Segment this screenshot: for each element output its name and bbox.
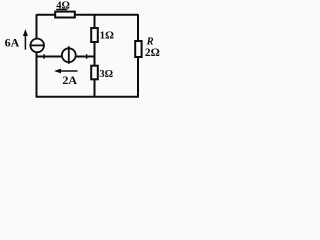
wire: left branch lower segment (current source bottom to node D): [36, 52, 38, 98]
svg-text:2A: 2A: [62, 73, 77, 87]
svg-text:1Ω: 1Ω: [100, 30, 115, 42]
svg-text:3Ω: 3Ω: [99, 69, 113, 80]
resistor 1-ohm (vertical box on middle branch): [91, 28, 98, 42]
resistor R 2-ohm (vertical box on right branch): [135, 41, 141, 57]
wire: middle branch segment (3-ohm resistor bottom to bottom net): [94, 79, 96, 98]
resistor 4-ohm (horizontal box on top net): [55, 12, 75, 18]
current source I1 6A (circle with horizontal bar, on left branch): [30, 39, 44, 53]
junction tick on middle net (left of 2A source): [43, 54, 45, 59]
resistor 3-ohm (vertical box on middle branch): [91, 66, 98, 80]
wire: middle horizontal net (left branch node to 2A source left terminal): [36, 56, 62, 58]
wire: bottom net from node D (bottom-left) to node C (bottom-right): [36, 96, 139, 98]
junction tick on middle net (right of 2A source, node E side): [86, 54, 88, 59]
arrow: 6A current direction (up), left of source: [24, 33, 26, 50]
wire: middle branch segment (top net to 1-ohm resistor, through to node E): [94, 14, 96, 66]
arrow: 2A current direction (left), below source: [57, 70, 78, 72]
svg-text:6A: 6A: [5, 35, 20, 49]
current source I2 2A (circle with vertical bar, on middle horizontal net): [62, 48, 76, 62]
wire: right branch lower segment (resistor R bottom to node C): [137, 57, 139, 98]
svg-text:2Ω: 2Ω: [145, 47, 160, 59]
wire: middle horizontal net (2A source right terminal to node E): [76, 56, 96, 58]
wire: right branch upper segment (node B to resistor R top): [137, 14, 139, 41]
wire: left branch upper segment (node A to current source top): [36, 14, 38, 39]
wire: top net from node A (top-left) to node B (top-right): [37, 14, 139, 16]
